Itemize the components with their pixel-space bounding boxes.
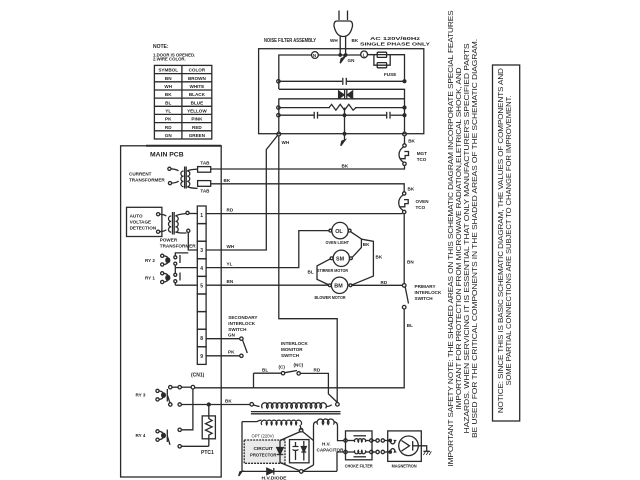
PTC1 thermistor <box>201 405 215 456</box>
svg-text:WH: WH <box>164 84 172 89</box>
svg-text:9: 9 <box>200 354 203 360</box>
svg-text:PRIMARY: PRIMARY <box>415 284 436 289</box>
hexagon hv cap outline <box>280 432 314 471</box>
svg-text:BLACK: BLACK <box>189 92 206 97</box>
svg-text:TAB: TAB <box>200 161 210 166</box>
svg-text:INTERLOCK: INTERLOCK <box>415 290 442 295</box>
svg-text:H.V.DIODE: H.V.DIODE <box>262 476 287 480</box>
wire pin 9 PK <box>206 350 243 358</box>
svg-text:RED: RED <box>192 125 202 130</box>
wires choke to magnetron <box>373 439 389 454</box>
node WH on box bottom <box>277 132 290 145</box>
svg-text:SM: SM <box>336 257 345 263</box>
svg-text:PK: PK <box>228 350 235 355</box>
notice rotated text <box>496 68 513 414</box>
svg-text:BK: BK <box>352 38 359 43</box>
noise filter assembly box <box>259 38 424 134</box>
svg-text:4: 4 <box>200 266 203 272</box>
wire row1 left <box>279 55 312 89</box>
resistor R row4 <box>277 104 406 110</box>
svg-text:GN: GN <box>228 333 236 338</box>
svg-text:TRANSFORMER: TRANSFORMER <box>160 244 196 249</box>
svg-text:WHITE: WHITE <box>189 84 204 89</box>
notice box <box>493 65 520 421</box>
choke coil top <box>347 436 370 442</box>
svg-text:INTERLOCK: INTERLOCK <box>228 321 255 326</box>
svg-text:OVEN LIGHT: OVEN LIGHT <box>326 240 350 245</box>
svg-text:YL: YL <box>165 108 171 113</box>
wire transformer to pin 3 <box>188 232 197 250</box>
label AC 120V/60Hz single phase only <box>360 36 430 46</box>
auto voltage detection block <box>127 207 162 236</box>
svg-text:BK: BK <box>224 178 231 183</box>
svg-text:STIRRER MOTOR: STIRRER MOTOR <box>317 268 349 273</box>
svg-text:BLOWER MOTOR: BLOWER MOTOR <box>315 295 347 300</box>
svg-text:GREEN: GREEN <box>189 133 206 138</box>
svg-text:WH: WH <box>227 244 235 249</box>
svg-text:FUSE: FUSE <box>384 72 396 77</box>
svg-text:VOLTAGE: VOLTAGE <box>130 220 152 225</box>
svg-text:NOISE FILTER ASSEMBLY: NOISE FILTER ASSEMBLY <box>264 38 317 44</box>
svg-text:SOME PARTIAL CONNECTIONS ARE S: SOME PARTIAL CONNECTIONS ARE SUBJECT TO … <box>504 96 513 386</box>
svg-text:PK: PK <box>165 117 172 122</box>
wire row1 mid <box>318 54 376 56</box>
svg-text:BL: BL <box>165 100 171 105</box>
svg-text:RY 3: RY 3 <box>136 393 146 398</box>
svg-text:MAIN PCB: MAIN PCB <box>150 151 184 158</box>
svg-text:BM: BM <box>334 284 343 290</box>
svg-text:RD: RD <box>227 208 234 213</box>
svg-text:SINGLE PHASE ONLY: SINGLE PHASE ONLY <box>360 41 430 46</box>
wire RY1 to pin 5 <box>175 284 197 286</box>
svg-text:PINK: PINK <box>191 117 203 122</box>
hv transformer hv winding <box>314 419 338 426</box>
wire TAB2 to OVEN TCO <box>211 184 405 192</box>
svg-text:BK: BK <box>376 255 383 260</box>
svg-text:NOTE:: NOTE: <box>153 44 169 50</box>
relay RY4 contact top <box>178 428 181 431</box>
svg-text:GN: GN <box>165 133 173 138</box>
svg-text:BN: BN <box>407 260 414 265</box>
svg-text:BL: BL <box>407 323 413 328</box>
svg-text:MGT: MGT <box>417 151 427 156</box>
wire RY3 top contact to BL junction <box>181 385 194 389</box>
bottom wire with hv diode <box>242 470 337 472</box>
svg-text:2.WIRE COLOR.: 2.WIRE COLOR. <box>153 57 186 62</box>
svg-text:BK: BK <box>363 242 370 247</box>
wire WH node down to transformer right <box>279 136 337 402</box>
svg-text:MONITOR: MONITOR <box>281 347 303 352</box>
svg-text:BN: BN <box>227 279 234 284</box>
label HV capacitor <box>317 442 345 453</box>
svg-text:(C): (C) <box>279 365 286 370</box>
svg-text:TCO: TCO <box>417 157 427 162</box>
important safety note rotated text <box>446 10 479 466</box>
center tap ground arrow below box <box>341 108 346 146</box>
SECTION: hv power section <box>239 341 432 480</box>
hv diode D <box>262 468 287 480</box>
current transformer T2 <box>129 167 198 189</box>
svg-text:SYMBOL: SYMBOL <box>158 68 178 73</box>
svg-text:MAGNETRON: MAGNETRON <box>392 464 418 469</box>
wire WH node diagonal to pin3 <box>206 136 277 251</box>
choke filter box <box>345 431 374 469</box>
relay RY1 <box>145 268 180 286</box>
svg-text:AUTO: AUTO <box>130 214 143 219</box>
tab terminal 1 <box>198 161 211 173</box>
svg-text:BE USED FOR THE CRITICAL COMPO: BE USED FOR THE CRITICAL COMPONENTS IN T… <box>470 39 479 438</box>
svg-text:YELLOW: YELLOW <box>187 108 207 113</box>
svg-text:BK: BK <box>225 399 232 404</box>
svg-text:CIRCUIT: CIRCUIT <box>254 446 274 451</box>
AC plug P1 <box>334 11 353 37</box>
relay RY4 <box>136 430 168 443</box>
ground GN arrow <box>340 55 355 63</box>
wire OVEN TCO down to primary interlock <box>404 214 414 284</box>
wire primary interlock BL down and left <box>195 309 413 388</box>
svg-text:COLOR: COLOR <box>189 68 206 73</box>
wire pin1 RD to OVEN TCO bottom <box>206 208 402 214</box>
primary interlock switch <box>402 284 442 309</box>
choke filter terminals <box>344 439 373 454</box>
magnetron box <box>388 431 422 469</box>
interlock monitor switch <box>254 341 338 403</box>
svg-text:OVEN: OVEN <box>416 199 430 204</box>
svg-text:CURRENT: CURRENT <box>129 172 152 177</box>
wire choke bottom to cathode return <box>337 452 344 471</box>
capacitor row5 right <box>387 112 406 119</box>
svg-text:PTC1: PTC1 <box>201 450 214 456</box>
tab terminal 2 <box>198 181 211 194</box>
svg-text:DETECTION: DETECTION <box>130 226 157 231</box>
circuit protector box shaded <box>244 440 285 463</box>
wire hv winding left lead down <box>313 426 315 466</box>
relay RY4 contact bottom <box>167 436 181 448</box>
svg-text:RY 4: RY 4 <box>136 433 146 438</box>
wire RY2 to pin 4 <box>175 267 197 269</box>
svg-text:RD: RD <box>165 125 172 130</box>
SECTION: motors <box>206 222 402 299</box>
svg-text:1: 1 <box>200 213 203 219</box>
wire fuse to right rail <box>387 55 405 80</box>
svg-text:RY 2: RY 2 <box>145 258 155 263</box>
svg-text:OL: OL <box>335 229 343 235</box>
capacitor C row2 <box>277 78 406 85</box>
svg-text:RY 1: RY 1 <box>145 276 155 281</box>
wire plug WH lead <box>330 36 341 56</box>
svg-text:POWER: POWER <box>160 238 178 243</box>
svg-text:INTERLOCK: INTERLOCK <box>281 341 308 346</box>
wire MGT TCO to TAB1 <box>211 166 405 170</box>
relay RY3 <box>136 389 168 402</box>
wire RY4 bottom to PTC1 <box>181 445 208 447</box>
thermal cutout MGT TCO <box>399 144 427 166</box>
svg-text:OPT (220V): OPT (220V) <box>252 434 275 439</box>
svg-text:L: L <box>363 52 366 57</box>
svg-text:SWITCH: SWITCH <box>415 296 434 301</box>
SECTION: right column switches <box>195 136 442 403</box>
svg-text:YL: YL <box>227 262 233 267</box>
svg-text:BROWN: BROWN <box>188 76 207 81</box>
hv capacitor inner box <box>290 440 310 463</box>
svg-text:BK: BK <box>165 92 172 97</box>
junction node top <box>299 428 303 432</box>
connector CN1 pin column <box>197 206 206 364</box>
svg-text:8: 8 <box>200 336 203 342</box>
capacitor row5 left <box>277 112 386 119</box>
wire OL right BK jog to SM <box>351 232 370 258</box>
svg-text:AC 120V/60Hz: AC 120V/60Hz <box>370 36 421 41</box>
relay RY2 <box>145 253 188 268</box>
wire BL tap down to long wire <box>253 373 255 388</box>
svg-text:BLUE: BLUE <box>191 100 204 105</box>
node N <box>312 52 319 59</box>
wire BK node to MGT TCO <box>404 136 406 144</box>
svg-text:H.V.: H.V. <box>322 442 331 447</box>
SECTION: note and color table <box>153 44 212 139</box>
wire hv winding right lead to choke top <box>338 426 344 441</box>
node L <box>361 51 368 58</box>
secondary interlock switch arm <box>243 340 248 353</box>
surge arrester rows <box>279 89 405 99</box>
wire junction column to RY4 <box>181 389 193 430</box>
junction node bottom <box>299 470 303 474</box>
wire BN pin5 to BM <box>206 279 328 285</box>
hv transformer core <box>251 412 341 414</box>
wire plug BK lead <box>344 36 358 56</box>
svg-text:(CN1): (CN1) <box>191 373 205 379</box>
hv transformer filament winding <box>242 420 302 430</box>
svg-text:RD: RD <box>314 367 321 372</box>
svg-text:SWITCH: SWITCH <box>228 327 247 332</box>
fuse F1 <box>368 52 405 77</box>
svg-text:WH: WH <box>330 38 338 43</box>
svg-text:BK: BK <box>408 138 415 143</box>
left vertical rail row3-bottom <box>278 99 280 133</box>
svg-text:(NC): (NC) <box>294 363 304 368</box>
wire SM left BL jog to BM <box>308 259 331 285</box>
stirrer motor SM <box>317 250 352 273</box>
SECTION: main pcb <box>121 146 258 477</box>
blower motor BM <box>315 277 352 300</box>
diode in circuit protector <box>277 441 284 463</box>
svg-text:BK: BK <box>342 163 349 168</box>
oven lamp OL <box>326 222 352 245</box>
svg-text:N: N <box>313 53 316 58</box>
relay RY3 contact top <box>169 386 182 389</box>
svg-text:TRANSFORMER: TRANSFORMER <box>129 178 165 183</box>
svg-text:TAB: TAB <box>200 188 210 193</box>
svg-text:PROTECTOR: PROTECTOR <box>250 453 277 458</box>
wire transformer to pin 1 <box>189 213 197 215</box>
secondary interlock switch <box>228 315 257 332</box>
node BK on box bottom <box>403 132 416 143</box>
svg-text:CHOKE FILTER: CHOKE FILTER <box>345 464 374 469</box>
wire RY3 bottom contact to transformer <box>181 399 250 407</box>
SECTION: noise filter assembly <box>259 11 430 146</box>
svg-text:5: 5 <box>200 283 203 289</box>
svg-text:SWITCH: SWITCH <box>281 353 300 358</box>
hv transformer T3 primary <box>250 403 339 409</box>
wire OL right to BM right rail <box>352 239 383 285</box>
svg-text:WH: WH <box>282 140 290 145</box>
svg-text:BK: BK <box>408 187 415 192</box>
thermal cutout OVEN TCO <box>399 187 430 214</box>
wire YL pin4 to OL <box>206 231 329 268</box>
svg-text:SECONDARY: SECONDARY <box>228 315 257 320</box>
svg-text:BL: BL <box>262 367 268 372</box>
power transformer T1 <box>160 211 197 248</box>
right vertical rail <box>404 99 406 133</box>
main pcb board outline <box>121 146 222 477</box>
svg-text:BL: BL <box>308 270 314 275</box>
magnetron V1 symbol <box>389 436 418 456</box>
left ground rail <box>239 422 245 476</box>
svg-text:RD: RD <box>381 280 388 285</box>
SECTION: side texts <box>446 10 520 466</box>
magnetron ground <box>418 446 431 455</box>
table texts <box>158 68 207 138</box>
wire BM right RD to primary interlock <box>352 280 403 285</box>
relay RY3 contact bottom <box>167 395 181 406</box>
svg-text:CAPACITOR: CAPACITOR <box>317 448 345 453</box>
wire color table <box>154 65 211 139</box>
wire pin 8 GN <box>206 333 243 341</box>
choke coil bottom <box>347 450 370 456</box>
svg-text:3: 3 <box>200 248 203 254</box>
svg-text:TCO: TCO <box>416 205 426 210</box>
svg-text:GN: GN <box>348 58 356 63</box>
svg-text:BN: BN <box>165 76 172 81</box>
